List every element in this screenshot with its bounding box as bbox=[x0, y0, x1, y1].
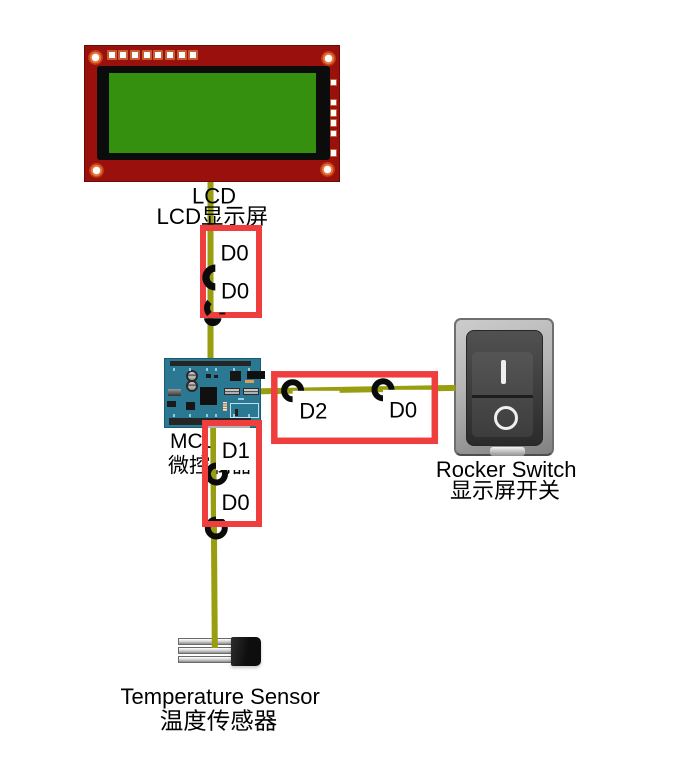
svg-text:D0: D0 bbox=[389, 398, 417, 423]
svg-text:D2: D2 bbox=[299, 399, 327, 424]
svg-text:D0: D0 bbox=[221, 240, 249, 265]
svg-text:显示屏开关: 显示屏开关 bbox=[450, 478, 560, 503]
svg-text:D0: D0 bbox=[222, 490, 250, 515]
svg-text:Temperature Sensor: Temperature Sensor bbox=[121, 684, 320, 709]
svg-text:D0: D0 bbox=[221, 278, 249, 303]
svg-text:温度传感器: 温度传感器 bbox=[160, 708, 278, 734]
svg-text:D1: D1 bbox=[222, 438, 250, 463]
